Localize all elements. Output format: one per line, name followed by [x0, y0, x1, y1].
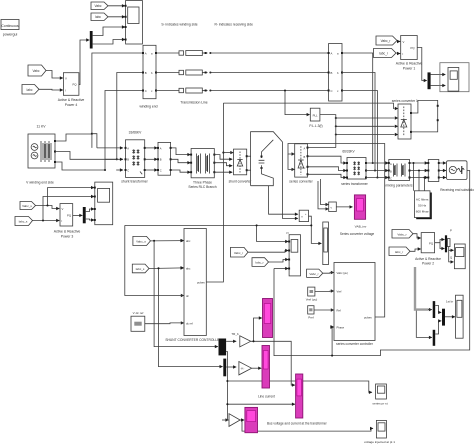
wire winding end A to bus — [92, 53, 143, 134]
svg-text:V: V — [403, 40, 405, 44]
wire shunt transformer to V-I — [145, 147, 158, 149]
mux demux3R — [433, 330, 436, 346]
block voltage measurement VM2 — [326, 202, 337, 212]
svg-text:B: B — [390, 169, 392, 173]
svg-text:V: V — [65, 77, 67, 81]
wire mux3 to scope3 — [431, 74, 446, 76]
wires demuxes to mux2R — [435, 306, 441, 313]
wire Iabc to scope1 — [108, 16, 125, 18]
svg-text:11 KV: 11 KV — [37, 125, 47, 129]
svg-text:series converter controller: series converter controller — [336, 342, 374, 346]
mux Mux1 — [90, 31, 93, 49]
wire to PQ1 input1 — [397, 41, 400, 42]
svg-text:V dc ref: V dc ref — [133, 311, 144, 315]
wire to 4-scope port4 — [274, 268, 288, 270]
wire Vref to controller — [315, 290, 334, 293]
wire constant to controller dc ref — [145, 322, 184, 325]
wire to PQ2 input2 — [410, 249, 421, 251]
wire series converter C to series transformer B — [308, 167, 347, 171]
svg-text:B: B — [127, 158, 129, 162]
svg-text:Active & Reactive: Active & Reactive — [58, 98, 85, 102]
block Active & Reactive Power 4 — [58, 73, 85, 107]
wire RLC to shunt converter — [214, 155, 232, 160]
wire series converter d to series transformer C — [308, 174, 347, 177]
svg-text:Series converter voltage: Series converter voltage — [340, 232, 375, 236]
mux demux1R — [433, 301, 436, 318]
svg-text:Power 1: Power 1 — [403, 66, 416, 70]
block Active & Reactive Power 2 — [415, 233, 441, 266]
svg-text:A: A — [145, 51, 147, 55]
svg-text:series converter 1: series converter 1 — [392, 99, 418, 103]
tag Vabc_r (from) top — [376, 36, 397, 45]
svg-text:A: A — [390, 162, 392, 166]
svg-text:series converter: series converter — [289, 180, 313, 184]
block shunt converter — [229, 149, 253, 183]
tag Vabc_r (from) PQ2 — [392, 230, 413, 239]
svg-text:Vabc_r: Vabc_r — [397, 233, 406, 237]
dc link bus inner and capacitor — [251, 140, 299, 216]
tag Iabc_r (from) top — [374, 49, 397, 58]
svg-text:A: A — [127, 146, 129, 150]
tag Vabc_r (from) series controller — [307, 269, 323, 277]
scope narrow Vdc — [323, 222, 329, 265]
svg-text:Receiving end substation: Receiving end substation — [440, 188, 474, 192]
powergui block — [1, 20, 19, 37]
wire branch to demux3R — [416, 311, 432, 338]
svg-text:B: B — [331, 71, 333, 75]
block receiving end V-I measurement — [328, 44, 343, 102]
wire thick vector signal down right — [415, 267, 429, 310]
svg-text:Line current: Line current — [258, 394, 275, 398]
wire row C tap to PLL input — [285, 91, 310, 115]
wire Vdc to controller dc input — [125, 225, 184, 295]
svg-text:Iabc_r: Iabc_r — [255, 261, 263, 265]
svg-text:66/33KV: 66/33KV — [342, 150, 355, 154]
magenta scope D bus voltage — [245, 407, 328, 432]
tag Iabc (from) — [91, 13, 108, 21]
dc link bus outer — [251, 132, 298, 219]
svg-text:PLL: PLL — [313, 114, 318, 118]
wire series converter A up to bus — [308, 147, 336, 149]
wire receiving B down to series row B — [342, 73, 375, 171]
svg-text:shunt converter: shunt converter — [229, 180, 253, 184]
svg-text:P: P — [450, 229, 452, 233]
svg-text:C: C — [160, 168, 162, 172]
svg-text:Continuous: Continuous — [1, 24, 18, 28]
magenta scope A (controller output) — [263, 299, 273, 338]
svg-text:Vabc_r: Vabc_r — [381, 39, 392, 43]
mux Mux5 — [223, 359, 226, 377]
wire controller pulses up to converters gate bus — [206, 103, 223, 282]
mux Mux3 — [428, 72, 431, 89]
wire bus to shunt transformer B — [105, 158, 123, 160]
svg-text:pulses: pulses — [364, 315, 372, 319]
mux Mux2R — [442, 309, 445, 326]
svg-text:B: B — [304, 155, 306, 159]
svg-text:A: A — [331, 51, 333, 55]
block receiving end substation source — [440, 161, 474, 192]
wire mixing parameters to V-I measurement 2 — [410, 162, 428, 164]
wire taps down to AC filters — [413, 163, 415, 191]
svg-text:V: V — [62, 207, 64, 211]
wire Iabc_s to PQ3 and scope2 — [33, 220, 60, 222]
wire Vabc_s to PQ3 and scope2 — [36, 206, 60, 209]
mux demux black (bottom) — [219, 339, 227, 356]
block AC filters with shadow — [414, 191, 431, 219]
gain bottom — [222, 419, 228, 421]
wire pulses bus to series converter 1 gate — [223, 103, 394, 108]
svg-text:S- indicates winding side: S- indicates winding side — [161, 23, 197, 27]
svg-text:-K-: -K- — [241, 367, 245, 371]
wire Pref to controller — [314, 309, 334, 311]
magenta scope VAB_inv — [340, 195, 375, 236]
svg-text:shunt transformer: shunt transformer — [121, 180, 148, 184]
wire to PQ1 input2 — [396, 52, 400, 55]
svg-text:V winding end side: V winding end side — [26, 181, 54, 185]
svg-text:Active & Reactive: Active & Reactive — [415, 257, 441, 261]
wire Vabc to scope1 — [108, 5, 125, 7]
svg-text:1st br: 1st br — [446, 300, 453, 304]
svg-text:Iabc_r: Iabc_r — [379, 52, 389, 56]
scope 4-input VI — [286, 231, 301, 276]
block Three Phase Series RLC Branch — [188, 149, 216, 190]
svg-text:abc: abc — [186, 266, 191, 270]
block SHUNT CONVERTER CONTROLLER — [165, 229, 222, 343]
wire winding end C to bus — [105, 91, 143, 171]
svg-text:Phase: Phase — [337, 326, 345, 330]
svg-text:AC filters: AC filters — [416, 198, 429, 202]
mux Mux6 — [83, 207, 86, 223]
block constant V dc ref — [131, 311, 145, 331]
scope Scope3 — [440, 63, 469, 92]
block Active & Reactive Power 1 — [396, 36, 423, 71]
tag Vabc_s (from) controller — [133, 236, 151, 245]
block series transformer — [341, 150, 368, 187]
wire PLL output to series bus — [320, 115, 336, 148]
svg-text:B: B — [145, 71, 147, 75]
wire source C to bus — [55, 162, 105, 170]
block series converter — [289, 144, 313, 184]
svg-text:Three Phase: Three Phase — [193, 181, 212, 185]
wire gain TR_b output to scopes — [251, 341, 295, 385]
svg-text:dc ref: dc ref — [186, 321, 193, 325]
transmission line RLC branch phase C — [156, 88, 329, 93]
svg-text:Iabc_s: Iabc_s — [19, 219, 28, 223]
svg-text:C: C — [390, 176, 392, 180]
svg-text:Iabc_s: Iabc_s — [136, 267, 145, 271]
wire V-I to three-phase RLC — [171, 148, 191, 155]
block voltage measurement VM1 — [299, 210, 308, 221]
transmission line RLC branch phase A — [156, 51, 329, 56]
svg-text:powergui: powergui — [3, 33, 18, 37]
wire to PQ2 input1 — [413, 234, 421, 238]
mux Mux4 — [445, 235, 447, 252]
block mixing parameters — [385, 160, 412, 188]
svg-text:Pref: Pref — [308, 316, 314, 320]
svg-text:Vabc_r: Vabc_r — [309, 272, 318, 276]
wire VM2 to VAB_inv scope — [336, 206, 352, 208]
wire mux4 to scope4 — [447, 239, 450, 247]
wire V-I 2 to receiving end substation — [439, 162, 446, 164]
svg-text:pulses: pulses — [197, 281, 205, 285]
svg-text:B: B — [160, 158, 162, 162]
svg-text:P.L.L.3(f): P.L.L.3(f) — [309, 124, 322, 128]
svg-text:600 Mvar: 600 Mvar — [416, 210, 429, 214]
svg-text:Vabc (pu): Vabc (pu) — [337, 271, 349, 275]
tag Iabc_s (from) left — [15, 217, 33, 226]
svg-text:50 Hz: 50 Hz — [418, 204, 427, 208]
svg-text:Vabc: Vabc — [94, 4, 101, 8]
scope Scope5 — [456, 295, 464, 338]
block V-I measurement 2 — [427, 160, 440, 182]
wire series transformer to mixing parameters row C — [366, 177, 388, 179]
svg-text:C: C — [304, 166, 306, 170]
tag Iabc_r (from) PQ2 — [389, 247, 410, 256]
svg-text:Power 4: Power 4 — [65, 103, 78, 107]
tag Vabc (from) 2 — [28, 65, 46, 76]
svg-text:Iabc: Iabc — [26, 88, 32, 92]
gain -K- — [226, 366, 236, 368]
wire VM1 output to narrow scope — [309, 216, 322, 243]
wire PQ3 to mux6 — [73, 214, 83, 216]
svg-text:TR_b: TR_b — [231, 332, 239, 336]
svg-text:A: A — [160, 146, 162, 150]
wire Iabc_s to controller and down to mux5 — [149, 267, 184, 270]
svg-text:Vabc_s: Vabc_s — [136, 240, 146, 244]
wire to PQ4 input 1 — [46, 71, 63, 79]
svg-text:abc: abc — [186, 239, 191, 243]
magenta scope B line current — [258, 346, 275, 399]
magenta scope C — [296, 374, 303, 418]
svg-text:R- indicates receiving side: R- indicates receiving side — [214, 23, 253, 27]
wire shunt converter dc- to dc link — [247, 169, 251, 171]
wire PQ4 output up to mux1 — [79, 40, 89, 85]
svg-text:Active & Reactive: Active & Reactive — [54, 230, 81, 234]
svg-text:SHUNT CONVERTER CONTROLLER: SHUNT CONVERTER CONTROLLER — [165, 338, 222, 342]
wire mux2R to scope5 — [445, 316, 455, 318]
svg-text:C: C — [127, 168, 129, 172]
svg-text:Vabc_r: Vabc_r — [234, 251, 243, 255]
svg-text:Series RLC Branch: Series RLC Branch — [188, 185, 216, 189]
block constant Pref — [308, 306, 314, 320]
wire to PQ4 input 2 — [39, 88, 63, 91]
svg-text:Vabc_s: Vabc_s — [22, 204, 32, 208]
wire Vabc_s to controller and down to demux — [151, 240, 184, 242]
tag Vabc_r (from) center — [231, 247, 249, 257]
block series converter controller — [331, 263, 375, 347]
wire receiving source to phase feedback loop — [274, 171, 470, 356]
svg-text:Vabc: Vabc — [32, 69, 39, 73]
svg-text:Bus voltage and current at th: Bus voltage and current at the transform… — [267, 421, 328, 425]
svg-text:33/66KV: 33/66KV — [129, 131, 142, 135]
wire to 4-scope port2 — [248, 251, 288, 253]
block shunt transformer — [121, 131, 148, 184]
wire shunt converter dc+ to dc link — [247, 155, 251, 157]
wire tap to scope voltage at pr st — [227, 381, 372, 392]
svg-text:Vref: Vref — [337, 290, 342, 294]
wire receiving A down to series row A — [342, 53, 373, 163]
wire source A to bus — [55, 134, 92, 148]
block series converter 1 — [395, 104, 412, 139]
scope Scope1 — [125, 1, 143, 45]
wire source B to bus — [55, 152, 117, 160]
wire tag to controller Vabc input — [323, 272, 334, 275]
wire to 4-scope port3 — [269, 260, 289, 263]
svg-text:Vref (pu): Vref (pu) — [306, 298, 318, 302]
svg-text:voltage injected at pt 1: voltage injected at pt 1 — [364, 440, 395, 444]
wire PQ1 to mux3 — [417, 48, 427, 81]
svg-text:Transmission Line: Transmission Line — [180, 101, 208, 105]
svg-text:mixing parameters: mixing parameters — [385, 184, 412, 188]
block V-I measurement shunt — [157, 142, 172, 175]
tag Iabc_s (from) controller — [132, 264, 149, 273]
svg-text:Iabc_r: Iabc_r — [395, 250, 403, 254]
wire to voltage injected scope — [242, 420, 373, 431]
scope voltage at pr st — [372, 384, 387, 406]
scope Scope4 — [454, 244, 465, 269]
wire phase branch to series controller — [332, 327, 333, 356]
wire demux second output down — [226, 352, 228, 421]
wire rows to series converter 1 phases — [336, 117, 395, 119]
svg-text:Iabc: Iabc — [95, 15, 101, 19]
wire PQ2 to mux4 — [435, 240, 445, 243]
svg-text:Power 2: Power 2 — [422, 261, 434, 265]
svg-text:Ref: Ref — [337, 309, 341, 313]
wire mux1 out to scope1 port3 — [93, 27, 125, 36]
svg-text:series pr st: series pr st — [372, 402, 387, 406]
scope voltage injected 1 — [364, 420, 395, 444]
wire series controller pulses to series converter gate — [288, 144, 385, 318]
block three-phase source 11 KV — [28, 125, 56, 169]
wire mux1 out to scope1 port4 — [93, 40, 125, 45]
wire series transformer to mixing parameters row B — [366, 170, 388, 172]
transmission line RLC branch phase B — [156, 70, 329, 75]
tag Vabc (from) — [91, 2, 108, 10]
block constant Vref — [306, 287, 318, 302]
tag Vabc_s (from) left — [20, 202, 36, 210]
svg-text:series transformer: series transformer — [341, 182, 368, 186]
wire mux6 to scope2 ports — [86, 209, 94, 212]
wire series converter B to series transformer A — [308, 156, 347, 163]
wire series transformer to mixing parameters row A — [366, 162, 388, 164]
svg-text:A: A — [304, 147, 306, 151]
wire receiving C down to series row C — [342, 91, 377, 178]
svg-text:Power 3: Power 3 — [61, 234, 74, 238]
block winding end (three-phase V-I measurement) — [139, 45, 157, 108]
scope Scope2 — [94, 182, 113, 225]
svg-text:C: C — [145, 89, 147, 93]
tag Iabc (from) 2 — [22, 85, 39, 95]
wire VM2 inputs — [321, 179, 329, 205]
wire Vdc signal line — [125, 224, 311, 226]
svg-text:V I: V I — [286, 231, 289, 235]
svg-text:Active & Reactive: Active & Reactive — [396, 62, 423, 66]
tag Iabc_r (from) center — [252, 258, 269, 267]
block PLL — [309, 108, 322, 128]
svg-text:VAB_inv: VAB_inv — [355, 225, 367, 229]
svg-text:C: C — [331, 89, 333, 93]
wire tap to line current scope lower input — [227, 403, 295, 405]
wire bus to shunt transformer C — [116, 169, 123, 171]
wire bus to shunt transformer A — [97, 147, 123, 149]
wire winding end B to bus — [117, 73, 143, 160]
wire series converter 1 dc loop — [411, 100, 438, 131]
block Active & Reactive Power 3 — [54, 204, 81, 239]
svg-text:winding end: winding end — [139, 105, 157, 109]
